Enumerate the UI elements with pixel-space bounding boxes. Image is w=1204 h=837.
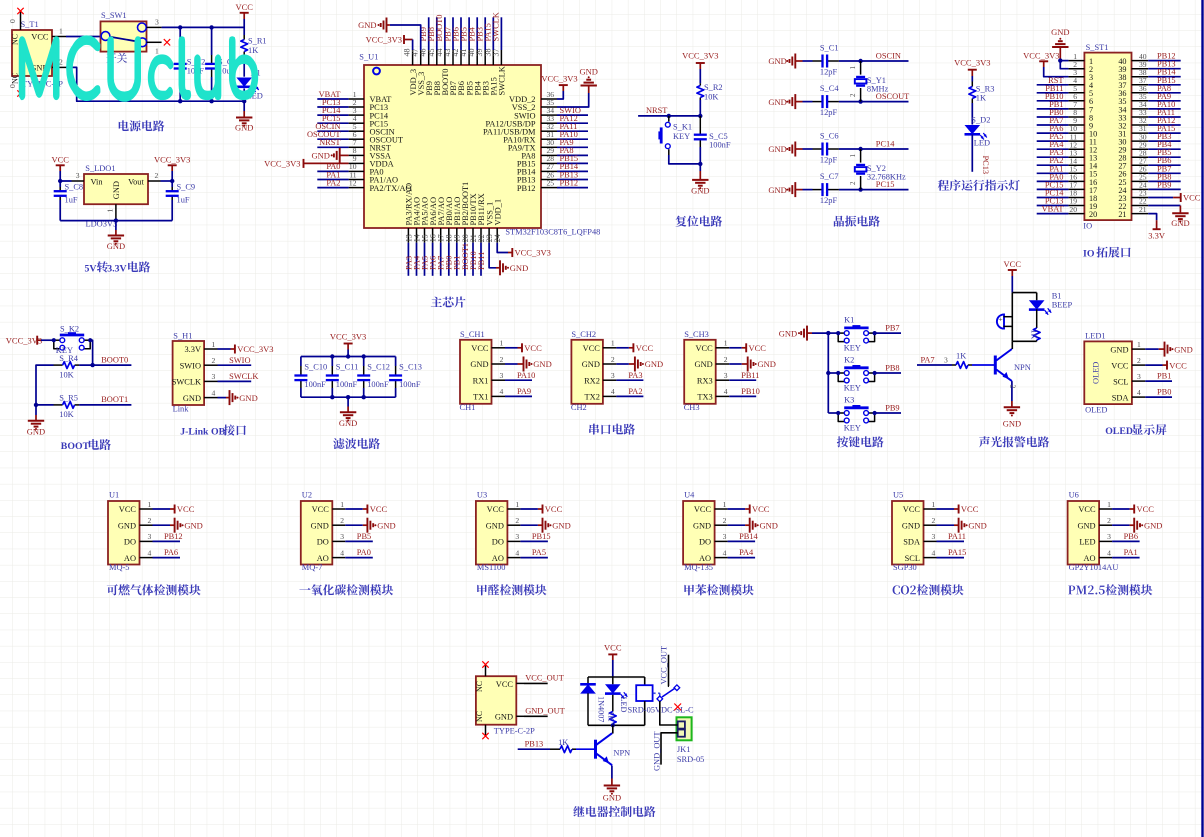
wire/net label PC13 (pin 2) xyxy=(317,98,348,107)
svg-text:S_C12: S_C12 xyxy=(367,363,390,372)
svg-text:20: 20 xyxy=(1069,205,1077,214)
wire LED to net PC13 xyxy=(972,135,990,175)
wire/net label PA9 (pin 30) xyxy=(557,138,588,147)
svg-text:VCC: VCC xyxy=(1169,360,1187,370)
svg-text:PB14: PB14 xyxy=(739,532,758,541)
junction xyxy=(242,99,246,103)
section OLED显示屏 xyxy=(0,0,1,1)
wire/net label PB10 (pin 6) xyxy=(1037,92,1069,101)
svg-text:GND: GND xyxy=(693,521,711,530)
junction xyxy=(209,25,213,29)
svg-text:GND: GND xyxy=(486,521,504,530)
diode 1N4007 (flyback) xyxy=(580,677,605,725)
wire/net label PC14 (pin 18) xyxy=(1037,189,1069,198)
svg-text:GND: GND xyxy=(768,56,786,66)
svg-text:3: 3 xyxy=(723,532,727,541)
junction xyxy=(34,403,38,407)
svg-text:1: 1 xyxy=(515,500,519,509)
svg-text:32.768KHz: 32.768KHz xyxy=(867,172,906,181)
svg-text:VCC: VCC xyxy=(312,505,330,514)
svg-text:8MHz: 8MHz xyxy=(867,85,889,94)
svg-text:OLED: OLED xyxy=(1085,405,1107,414)
svg-text:GND: GND xyxy=(968,520,986,530)
wire/net label PA4 (pin 14) xyxy=(412,243,421,276)
svg-text:NC: NC xyxy=(11,34,20,45)
svg-text:U3: U3 xyxy=(477,491,487,500)
svg-text:VCC: VCC xyxy=(487,505,505,514)
wire/net label PA9 xyxy=(505,387,532,396)
svg-text:VCC: VCC xyxy=(961,504,979,514)
svg-text:LED: LED xyxy=(1079,538,1095,547)
wire/net label PB11 (pin 22) xyxy=(477,243,486,276)
ground xyxy=(107,230,125,251)
svg-text:PB1: PB1 xyxy=(1157,372,1171,381)
ground at pin2 xyxy=(728,518,778,533)
svg-text:1: 1 xyxy=(106,209,115,213)
svg-text:S_C6: S_C6 xyxy=(820,131,839,140)
section 按键电路 (key buttons) xyxy=(0,0,1,1)
power VCC_3V3 at VDD_1 pin24 xyxy=(497,243,551,258)
svg-text:PC15: PC15 xyxy=(876,180,895,189)
ground xyxy=(603,779,621,803)
svg-text:Link: Link xyxy=(173,405,190,414)
svg-text:S_R3: S_R3 xyxy=(976,85,995,94)
svg-text:1K: 1K xyxy=(956,352,966,361)
svg-text:AO: AO xyxy=(699,554,711,563)
svg-text:PB10: PB10 xyxy=(741,387,760,396)
svg-text:S_C5: S_C5 xyxy=(709,132,728,141)
svg-text:U2: U2 xyxy=(302,491,312,500)
wire/net label PB10 xyxy=(729,387,760,396)
svg-text:GND_OUT: GND_OUT xyxy=(653,731,662,771)
svg-text:1: 1 xyxy=(148,500,152,509)
svg-text:1: 1 xyxy=(1107,500,1111,509)
svg-text:PB5: PB5 xyxy=(357,532,371,541)
svg-text:1: 1 xyxy=(155,47,159,56)
wire capacitor to net OSCOUT xyxy=(839,92,909,102)
svg-text:4: 4 xyxy=(1107,548,1111,557)
svg-text:+: + xyxy=(999,315,1003,324)
wire bus to GND xyxy=(35,405,37,415)
junction xyxy=(362,395,366,399)
wire/net label VBAT (pin 20) xyxy=(1037,205,1069,214)
connector S_ST1 IO header xyxy=(1068,43,1148,231)
wire key bottom to cap bottom node xyxy=(669,155,701,164)
wire capacitor to net PC14 xyxy=(839,139,909,149)
junction xyxy=(826,331,830,335)
wire/net label PB9 xyxy=(875,403,901,413)
svg-text:1: 1 xyxy=(212,340,216,349)
no-connect X on contact xyxy=(674,704,681,711)
wire/net label PA11 xyxy=(937,532,967,541)
power VCC at pin2 xyxy=(1145,360,1187,370)
title 按键电路 xyxy=(837,436,884,447)
wire/net label OSCIN (pin 5) xyxy=(315,122,348,131)
svg-text:S_C4: S_C4 xyxy=(820,84,839,93)
section 晶振电路 (crystal circuit) xyxy=(0,0,1,1)
svg-text:U4: U4 xyxy=(684,491,695,500)
junction xyxy=(858,59,862,63)
capacitor S_C13 100nF xyxy=(389,357,422,398)
svg-text:10K: 10K xyxy=(59,370,73,379)
title 复位电路 xyxy=(676,216,722,227)
module U2 MQ-7 xyxy=(301,491,346,573)
crystal S_Y2 32.768KHz xyxy=(849,149,906,190)
wire/net label BOOT0 (pin 44) xyxy=(435,14,445,50)
wire/net label PA0 (pin 16) xyxy=(1037,172,1069,181)
svg-text:TYPE-C-2P: TYPE-C-2P xyxy=(494,727,535,736)
svg-text:SCL: SCL xyxy=(905,554,920,563)
svg-text:PA2: PA2 xyxy=(628,387,642,396)
svg-text:GND_OUT: GND_OUT xyxy=(525,707,565,716)
resistor S_R3 1K xyxy=(969,82,995,104)
svg-text:2: 2 xyxy=(59,58,63,67)
svg-text:IO: IO xyxy=(1083,222,1092,231)
wire/net label PB6 (pin 27) xyxy=(1148,156,1181,165)
svg-text:PB15: PB15 xyxy=(532,532,551,541)
svg-text:21: 21 xyxy=(1118,210,1126,219)
svg-text:VCC_3V3: VCC_3V3 xyxy=(330,332,366,342)
svg-text:3: 3 xyxy=(515,532,519,541)
ground at pin2 xyxy=(937,518,987,533)
svg-text:1: 1 xyxy=(849,66,857,70)
svg-text:S_SW1: S_SW1 xyxy=(101,11,127,20)
title 程序运行指示灯 xyxy=(938,180,1020,191)
svg-text:BOOT1: BOOT1 xyxy=(101,395,128,404)
svg-text:VCC_3V3: VCC_3V3 xyxy=(515,248,551,258)
push button S_K2 KEY xyxy=(52,324,93,355)
wire/net label OSCOUT (pin 6) xyxy=(307,130,349,139)
wire/net label PB0 (pin 18) xyxy=(445,243,454,276)
svg-text:1N4007: 1N4007 xyxy=(596,696,605,722)
title 串口电路 xyxy=(589,424,635,435)
wire/net label PA10 (pin 31) xyxy=(557,130,588,139)
svg-text:GND: GND xyxy=(107,241,125,251)
svg-text:NC: NC xyxy=(475,711,484,722)
svg-text:GND: GND xyxy=(1110,345,1128,354)
section BOOT电路 xyxy=(0,0,1,1)
svg-text:SWCLK: SWCLK xyxy=(498,66,507,95)
svg-text:12pF: 12pF xyxy=(820,155,838,164)
wire/net label PA0 (pin 10) xyxy=(317,162,348,171)
svg-text:LED1: LED1 xyxy=(1085,332,1105,341)
section 滤波电路 (filter) xyxy=(0,0,1,1)
svg-text:STM32F103C8T6_LQFP48: STM32F103C8T6_LQFP48 xyxy=(505,228,600,237)
svg-text:2: 2 xyxy=(212,356,216,365)
power VCC at pin1 xyxy=(153,504,195,514)
svg-text:2: 2 xyxy=(500,355,504,364)
module U3 MS1100 xyxy=(476,491,521,573)
svg-text:AO: AO xyxy=(317,554,329,563)
svg-text:GND: GND xyxy=(533,359,551,369)
svg-text:S_R1: S_R1 xyxy=(248,37,267,46)
wire bus to key K3 xyxy=(828,412,838,414)
wire VCC_OUT (rotated label) xyxy=(659,646,668,687)
svg-text:3: 3 xyxy=(724,371,728,380)
wire/net label PA3 (pin 13) xyxy=(404,243,413,276)
svg-text:PB11: PB11 xyxy=(477,252,486,270)
svg-text:GND: GND xyxy=(239,393,257,403)
wire/net label PA2 xyxy=(616,387,643,396)
resistor 1K at base xyxy=(550,738,576,752)
svg-text:12pF: 12pF xyxy=(820,108,838,117)
capacitor S_C10 100nF xyxy=(294,357,327,398)
svg-text:S_R4: S_R4 xyxy=(59,354,78,363)
svg-text:OLED: OLED xyxy=(1091,362,1100,384)
svg-text:PA9: PA9 xyxy=(517,387,531,396)
svg-text:VCC: VCC xyxy=(604,643,622,653)
title 声光报警电路 xyxy=(979,436,1049,447)
svg-text:CH3: CH3 xyxy=(684,403,700,412)
capacitor S_C11 100nF xyxy=(326,357,359,398)
ground feed xyxy=(779,326,829,341)
transistor NPN xyxy=(995,349,1030,381)
svg-text:VCC: VCC xyxy=(496,680,514,689)
svg-text:KEY: KEY xyxy=(844,384,861,393)
svg-text:PB7: PB7 xyxy=(885,324,899,333)
wire/net label PA5 xyxy=(520,548,548,557)
svg-text:21: 21 xyxy=(1139,205,1147,214)
svg-text:DO: DO xyxy=(317,538,329,547)
ground at pin1 xyxy=(1145,342,1192,357)
capacitor S_C8 1uF xyxy=(54,181,83,221)
svg-text:0: 0 xyxy=(8,19,17,23)
svg-text:GP2Y1014AU: GP2Y1014AU xyxy=(1069,563,1119,572)
section 主芯片 (main MCU) xyxy=(0,0,1,1)
svg-text:GND: GND xyxy=(495,713,513,722)
wire/net label PC15 (pin 17) xyxy=(1037,180,1069,189)
wire/net label PA4 xyxy=(728,548,756,557)
wire VCC down xyxy=(1011,276,1013,293)
title 可燃气体检测模块 xyxy=(107,584,201,595)
section 可燃气体检测模块 module U1 xyxy=(0,0,1,1)
svg-text:3.3V: 3.3V xyxy=(184,345,201,354)
wire cap to node xyxy=(699,147,701,171)
svg-text:S_ST1: S_ST1 xyxy=(1086,43,1109,52)
wire/net label PB13 (pin 39) xyxy=(1148,60,1181,69)
svg-text:GND: GND xyxy=(112,181,121,199)
no-connect X on S_T1 top pin xyxy=(17,8,23,14)
svg-text:3: 3 xyxy=(212,372,216,381)
svg-text:25: 25 xyxy=(547,178,555,187)
svg-text:TX2: TX2 xyxy=(585,393,600,402)
wire top tee to LED branch xyxy=(1012,292,1036,294)
module U5 SGP30 xyxy=(892,491,937,573)
svg-text:12pF: 12pF xyxy=(820,67,838,76)
svg-text:LED: LED xyxy=(619,697,628,713)
wire GND_OUT to JK1 pin2 xyxy=(653,731,678,771)
svg-text:S_D2: S_D2 xyxy=(971,115,990,124)
svg-text:NPN: NPN xyxy=(1014,363,1031,372)
junction xyxy=(330,354,334,358)
wire/net label PB13 (pin 26) xyxy=(557,170,588,179)
svg-text:GND: GND xyxy=(552,520,570,530)
svg-text:4: 4 xyxy=(500,387,504,396)
wire/net label PB3 (pin 30) xyxy=(1148,132,1181,141)
svg-text:PA7: PA7 xyxy=(921,355,935,364)
svg-text:PA5: PA5 xyxy=(532,548,546,557)
svg-text:VCC: VCC xyxy=(524,343,542,353)
ground xyxy=(27,415,45,436)
wire/net label PA7 (pin 17) xyxy=(437,243,446,276)
wire switch pin3 to VCC rail xyxy=(162,26,245,28)
svg-text:2: 2 xyxy=(1137,356,1141,365)
capacitor S_C6 12pF xyxy=(813,131,839,164)
wire/net label PA12 (pin 32) xyxy=(1148,116,1181,125)
svg-text:GND: GND xyxy=(358,20,376,30)
svg-text:3.3V: 3.3V xyxy=(107,263,126,274)
wire/net label PB7 (pin 43) xyxy=(443,17,453,50)
svg-text:S_K2: S_K2 xyxy=(60,324,79,333)
transistor NPN (relay driver) xyxy=(596,733,631,765)
svg-text:3.3V: 3.3V xyxy=(1148,231,1166,241)
svg-text:GND: GND xyxy=(760,520,778,530)
svg-text:1K: 1K xyxy=(1030,330,1039,340)
power VCC_3V3 at VDD_3 pin48 xyxy=(366,35,413,50)
svg-text:GND: GND xyxy=(311,151,329,161)
wire/net label BOOT1 xyxy=(36,395,131,405)
svg-text:GND: GND xyxy=(1171,218,1189,228)
wire/net label PA6 (pin 10) xyxy=(1037,124,1069,133)
ground at VSS_3 pin47 xyxy=(358,18,421,51)
wire to key xyxy=(41,339,54,341)
wire/net label PC13 (pin 19) xyxy=(1037,197,1069,206)
capacitor S_C5 100nF xyxy=(694,116,731,150)
svg-text:DO: DO xyxy=(699,538,711,547)
svg-text:VDD_1: VDD_1 xyxy=(493,199,502,226)
svg-text:GND: GND xyxy=(27,426,45,436)
svg-text:2: 2 xyxy=(611,355,615,364)
svg-text:PA11: PA11 xyxy=(948,532,966,541)
svg-text:SWIO: SWIO xyxy=(229,356,250,365)
svg-text:12: 12 xyxy=(349,178,357,187)
bus wire xyxy=(827,333,829,413)
svg-text:3: 3 xyxy=(340,532,344,541)
svg-text:S_C7: S_C7 xyxy=(820,172,839,181)
section IO拓展口 (IO expansion header) xyxy=(0,0,1,1)
ground at pin2 xyxy=(520,518,570,533)
bottom rail wire xyxy=(301,396,396,398)
svg-text:K2: K2 xyxy=(844,355,854,364)
svg-text:GND: GND xyxy=(902,521,920,530)
junction xyxy=(90,363,94,367)
wire/net label PB11 xyxy=(729,371,759,380)
svg-text:SWCLK: SWCLK xyxy=(172,378,201,387)
svg-text:PC13: PC13 xyxy=(981,156,990,175)
connector S_T1 TYPE-C-2P xyxy=(8,12,66,93)
wire/net label PA12 (pin 33) xyxy=(557,114,588,123)
title 继电器控制电路 xyxy=(573,806,655,817)
ground at row OSCIN xyxy=(768,54,802,69)
svg-text:GND: GND xyxy=(184,520,202,530)
module U1 MQ-5 xyxy=(108,491,153,573)
svg-text:S_T1: S_T1 xyxy=(21,20,39,29)
capacitor S_C4 12pF xyxy=(813,84,840,117)
junction xyxy=(826,371,830,375)
wire/net label PA3 xyxy=(616,371,643,380)
svg-text:GND: GND xyxy=(118,521,136,530)
wire/net label SWCLK (pin 37) xyxy=(492,12,502,50)
svg-text:2: 2 xyxy=(849,181,857,185)
junction xyxy=(858,187,862,191)
svg-text:PB9: PB9 xyxy=(1157,180,1171,189)
svg-text:S_C13: S_C13 xyxy=(399,363,422,372)
wire capacitor to net OSCIN xyxy=(839,51,909,61)
svg-text:SWIO: SWIO xyxy=(180,361,201,370)
wire/net label PB12 xyxy=(153,532,183,541)
svg-text:2: 2 xyxy=(148,516,152,525)
wire/net label PB1 (pin 19) xyxy=(453,243,462,276)
wire/net label PB5 (pin 41) xyxy=(459,17,469,50)
section 甲醛检测模块 module U3 xyxy=(0,0,1,1)
connector S_CH3 CH3 xyxy=(684,330,730,412)
svg-text:3: 3 xyxy=(1107,532,1111,541)
module U4 MQ-135 xyxy=(683,491,728,573)
svg-text:S_LDO1: S_LDO1 xyxy=(85,164,115,173)
svg-text:CH1: CH1 xyxy=(460,403,476,412)
wire/net label PB1 (pin 7) xyxy=(1037,100,1069,109)
ground at VSS_1 pin23 xyxy=(489,243,528,276)
junction xyxy=(362,354,366,358)
svg-text:GND: GND xyxy=(470,360,488,369)
svg-text:S_CH2: S_CH2 xyxy=(571,330,596,339)
svg-text:GND: GND xyxy=(768,144,786,154)
svg-text:GND: GND xyxy=(582,360,600,369)
svg-text:NRST: NRST xyxy=(646,106,667,115)
wire/net label PB9 (pin 46) xyxy=(419,17,429,50)
svg-text:1uF: 1uF xyxy=(177,195,190,204)
svg-text:OLED: OLED xyxy=(1105,426,1133,437)
svg-text:VCC: VCC xyxy=(119,505,137,514)
title 滤波电路 xyxy=(333,438,380,449)
top rail wire xyxy=(588,676,645,678)
title 一氧化碳检测模块 xyxy=(299,584,393,595)
svg-text:S_U1: S_U1 xyxy=(359,53,378,62)
power VCC xyxy=(604,643,622,661)
svg-text:MQ-7: MQ-7 xyxy=(302,563,322,572)
power VCC at pin1 xyxy=(505,343,542,353)
wire VCC to resistor xyxy=(243,19,245,35)
svg-text:1K: 1K xyxy=(248,46,258,55)
svg-text:3: 3 xyxy=(944,355,948,364)
ground at pin2 xyxy=(153,518,203,533)
svg-text:SWCLK: SWCLK xyxy=(492,12,501,41)
svg-text:VCC_3V3: VCC_3V3 xyxy=(154,154,190,164)
svg-text:GND: GND xyxy=(779,328,797,338)
wire/net label RST (pin 4) xyxy=(1037,76,1069,85)
wire bottom rail to GND xyxy=(347,397,349,406)
junction xyxy=(698,114,702,118)
wire VCC_3V3 down to top rail xyxy=(347,350,349,357)
svg-text:U5: U5 xyxy=(893,491,903,500)
svg-text:VCC_3V3: VCC_3V3 xyxy=(682,51,718,61)
svg-text:1: 1 xyxy=(724,339,728,348)
svg-text:Vin: Vin xyxy=(91,177,104,186)
section 5V转3.3V电路 (LDO) xyxy=(0,0,1,1)
svg-text:NC: NC xyxy=(11,73,20,84)
wire/net label PC15 (pin 4) xyxy=(317,114,348,123)
svg-text:100nF: 100nF xyxy=(367,380,389,389)
wire/net label PA5 (pin 15) xyxy=(420,243,429,276)
wire resistor to base xyxy=(972,364,995,366)
svg-text:3: 3 xyxy=(76,171,80,180)
svg-text:S_C10: S_C10 xyxy=(304,363,327,372)
svg-text:VCC_3V3: VCC_3V3 xyxy=(541,74,577,84)
svg-text:S_C9: S_C9 xyxy=(177,183,196,192)
wire/net label PA11 (pin 32) xyxy=(557,122,588,131)
wire/net label PB8 (pin 25) xyxy=(1148,172,1181,181)
svg-text:PB12: PB12 xyxy=(560,178,579,187)
